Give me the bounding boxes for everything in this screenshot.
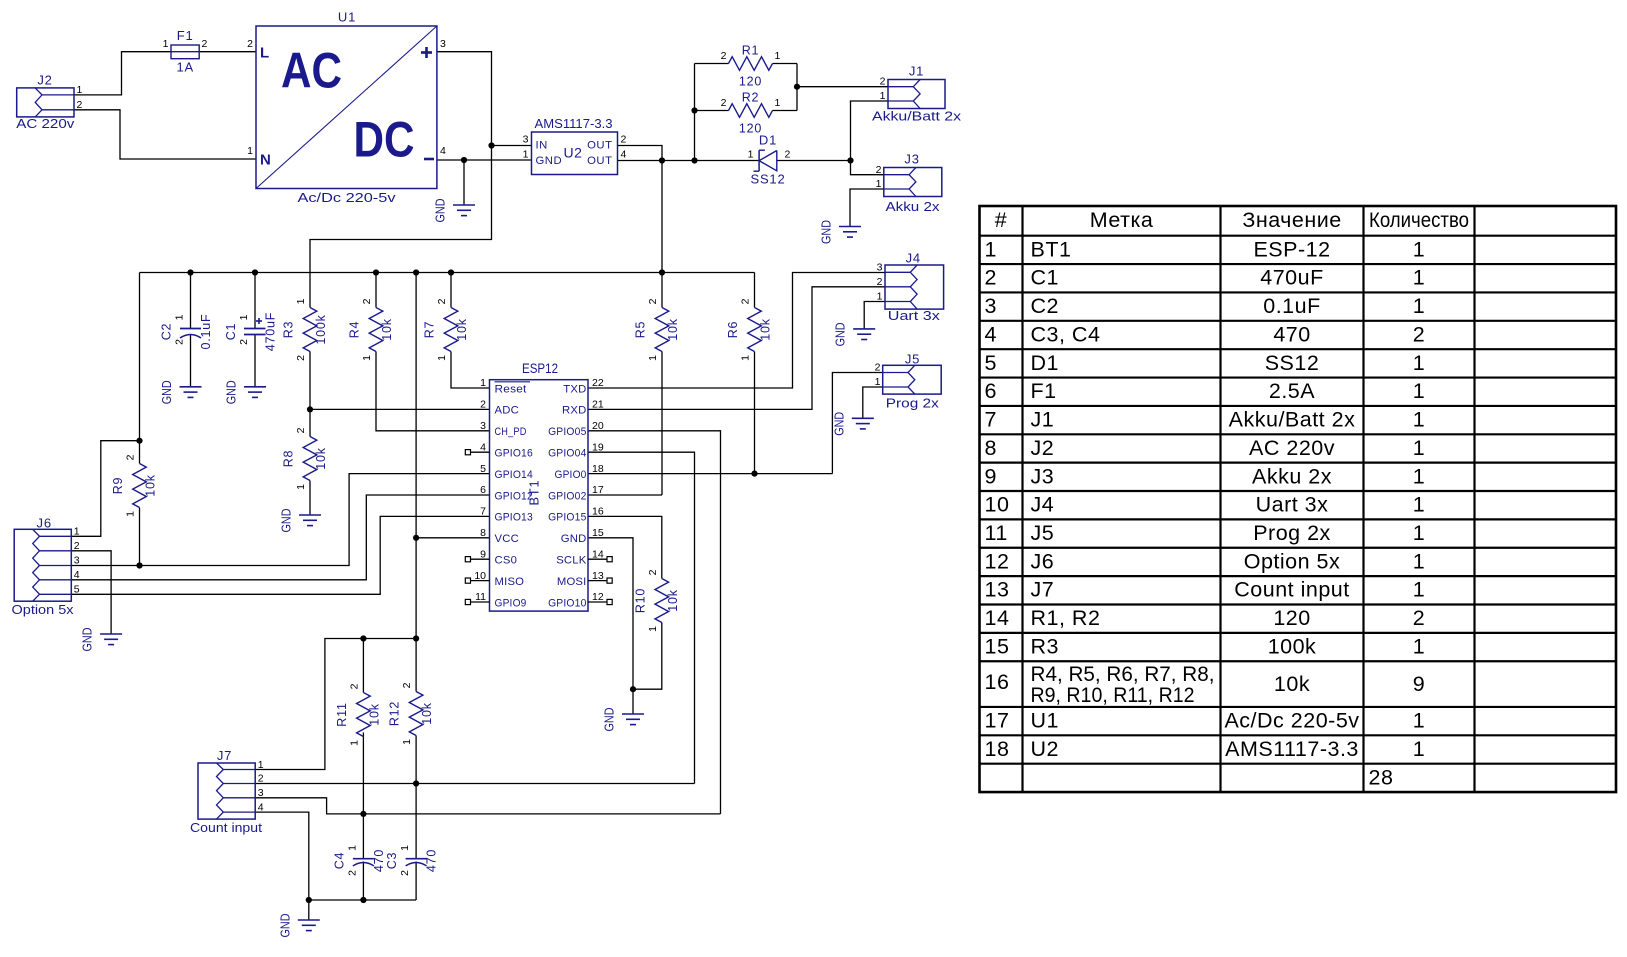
- svg-text:U2: U2: [1031, 737, 1059, 761]
- svg-text:1: 1: [880, 90, 886, 102]
- svg-text:F1: F1: [1031, 379, 1057, 403]
- wire D1 to batt node: [777, 160, 851, 162]
- svg-text:C2: C2: [160, 323, 174, 341]
- wire J5.1 to ground: [863, 387, 883, 418]
- svg-text:J2: J2: [1031, 436, 1055, 460]
- svg-text:2: 2: [1413, 606, 1425, 630]
- svg-text:1: 1: [125, 511, 137, 517]
- svg-text:IN: IN: [536, 140, 548, 152]
- resistor R6: [726, 298, 773, 361]
- wire ESP GPIO04 down: [588, 452, 695, 783]
- svg-text:MOSI: MOSI: [557, 576, 587, 588]
- svg-text:1: 1: [1413, 493, 1425, 517]
- wire 3.3V bus: [140, 272, 755, 274]
- stub pin 12: [588, 599, 612, 604]
- svg-text:1: 1: [1413, 634, 1425, 658]
- diode D1 SS12: [748, 133, 791, 187]
- wire to J1 pin2: [797, 86, 888, 88]
- svg-text:Uart 3x: Uart 3x: [1256, 493, 1329, 517]
- connector J1: [872, 64, 962, 124]
- capacitor C4: [332, 845, 386, 876]
- node VCC ESP pin8: [413, 535, 419, 541]
- node 3.3V rail tap: [691, 157, 697, 163]
- wire ground stub bottom: [308, 900, 310, 920]
- BOM row 1: [985, 237, 1426, 261]
- svg-text:RXD: RXD: [562, 405, 586, 417]
- stub pin 14: [588, 557, 612, 562]
- svg-text:8: 8: [480, 527, 486, 539]
- node bus R4: [373, 269, 379, 275]
- svg-text:12: 12: [985, 549, 1010, 573]
- svg-text:1: 1: [436, 355, 448, 361]
- node GND junction at U1: [461, 157, 467, 163]
- wire R5 bottom lead: [661, 352, 663, 496]
- svg-text:AMS1117-3.3: AMS1117-3.3: [1225, 737, 1359, 761]
- svg-text:GPIO10: GPIO10: [548, 597, 586, 609]
- svg-text:1: 1: [258, 759, 264, 771]
- svg-text:C2: C2: [1031, 294, 1059, 318]
- node R11/R12 rail VCC: [413, 635, 419, 641]
- svg-text:4: 4: [74, 569, 80, 581]
- wire C4 bottom lead: [362, 862, 364, 901]
- wire R11 bottom lead: [362, 733, 364, 859]
- wire batt node to J3 pin2: [851, 161, 884, 175]
- node R6 GPIO0 junction: [751, 471, 757, 477]
- wire J2.2 to U1 pin N: [74, 110, 256, 159]
- BOM row 16: [985, 662, 1426, 707]
- svg-text:3: 3: [74, 555, 80, 567]
- svg-text:2: 2: [721, 97, 727, 109]
- node C4 bottom junction: [360, 897, 366, 903]
- svg-text:6: 6: [985, 379, 997, 403]
- svg-text:1: 1: [77, 84, 83, 96]
- svg-text:2: 2: [1413, 322, 1425, 346]
- wire J7.2 to GPIO04 net: [255, 783, 694, 785]
- ground below J5: [831, 412, 874, 436]
- stub pin 9: [465, 557, 489, 562]
- svg-text:1: 1: [875, 376, 881, 388]
- resistor R5: [634, 298, 681, 361]
- wire C3 bottom lead: [415, 862, 417, 901]
- svg-text:ADC: ADC: [495, 405, 519, 417]
- node R10 GND junction: [630, 686, 636, 692]
- svg-text:Значение: Значение: [1242, 208, 1341, 232]
- svg-text:Prog 2x: Prog 2x: [1253, 521, 1331, 545]
- ESP12 module BT1: [474, 361, 604, 611]
- svg-text:J2: J2: [37, 73, 52, 88]
- resistor R1: [721, 44, 781, 89]
- svg-text:1: 1: [1413, 379, 1425, 403]
- wire R4 top lead: [375, 273, 377, 308]
- node OUT tie junction: [659, 157, 665, 163]
- svg-text:R6: R6: [726, 321, 740, 339]
- svg-text:GND: GND: [80, 628, 95, 652]
- svg-text:2: 2: [721, 50, 727, 62]
- svg-text:GPIO02: GPIO02: [548, 490, 586, 502]
- regulator U2 AMS1117-3.3: [523, 116, 627, 175]
- svg-text:2: 2: [238, 339, 250, 345]
- svg-text:1: 1: [1413, 709, 1425, 733]
- svg-text:Количество: Количество: [1369, 208, 1469, 232]
- svg-text:2: 2: [985, 266, 997, 290]
- svg-text:2: 2: [877, 276, 883, 288]
- svg-text:1A: 1A: [176, 60, 194, 75]
- svg-text:2: 2: [480, 399, 486, 411]
- ground below C2: [159, 380, 202, 404]
- wire R9 bottom lead: [139, 508, 141, 566]
- svg-text:J4: J4: [906, 251, 921, 266]
- svg-text:1: 1: [163, 38, 169, 50]
- svg-text:22: 22: [592, 377, 604, 389]
- wire J7.3 to GPIO05 net: [255, 798, 720, 814]
- svg-text:C3: C3: [385, 852, 399, 870]
- svg-text:GPIO05: GPIO05: [548, 426, 586, 438]
- svg-text:R2: R2: [742, 91, 760, 105]
- svg-text:ESP12: ESP12: [522, 361, 558, 376]
- svg-text:2: 2: [361, 298, 373, 304]
- svg-text:J6: J6: [1031, 549, 1055, 573]
- wire R6 bottom lead: [754, 352, 756, 474]
- wire C2 top lead: [190, 273, 192, 329]
- svg-text:10k: 10k: [455, 318, 469, 341]
- svg-text:GPIO0: GPIO0: [555, 469, 587, 481]
- svg-text:J1: J1: [1031, 408, 1055, 432]
- wire R1 right lead: [773, 63, 798, 65]
- svg-text:2: 2: [880, 76, 886, 88]
- svg-text:1: 1: [877, 291, 883, 303]
- svg-text:OUT: OUT: [587, 155, 612, 167]
- svg-text:17: 17: [592, 484, 604, 496]
- svg-text:1: 1: [1413, 737, 1425, 761]
- svg-text:GND: GND: [831, 412, 846, 436]
- stub pin 10: [465, 578, 489, 583]
- svg-text:1: 1: [1413, 237, 1425, 261]
- svg-text:J3: J3: [904, 152, 919, 167]
- connector J4: [877, 251, 944, 324]
- svg-text:1: 1: [238, 314, 250, 320]
- svg-text:D1: D1: [759, 133, 777, 148]
- svg-text:VCC: VCC: [495, 533, 519, 545]
- resistor R9: [111, 454, 158, 517]
- wire J6.5 to ESP GPIO13: [71, 516, 489, 594]
- svg-text:F1: F1: [177, 28, 194, 43]
- svg-text:2: 2: [785, 149, 791, 161]
- wire J3 pin1 to ground: [850, 189, 884, 227]
- svg-text:N: N: [260, 152, 271, 169]
- svg-text:J3: J3: [1031, 464, 1055, 488]
- svg-text:2.5A: 2.5A: [1269, 379, 1315, 403]
- wire J7.4 down: [255, 812, 309, 900]
- fuse F1: [163, 28, 208, 75]
- svg-text:Akku 2x: Akku 2x: [886, 199, 941, 214]
- svg-text:100k: 100k: [1268, 634, 1317, 658]
- svg-text:2: 2: [401, 682, 413, 688]
- svg-text:R9: R9: [111, 477, 125, 495]
- svg-text:U1: U1: [338, 10, 356, 25]
- svg-text:2: 2: [647, 569, 659, 575]
- node R11 rail junction: [360, 635, 366, 641]
- svg-text:TXD: TXD: [563, 383, 586, 395]
- resistor R12: [388, 682, 435, 745]
- svg-text:2: 2: [399, 870, 411, 876]
- wire J4.1 to ground: [864, 302, 885, 329]
- wire R3 bottom lead: [309, 352, 311, 410]
- svg-text:1: 1: [247, 145, 253, 157]
- wire ESP GND pin15 down: [588, 538, 633, 714]
- svg-text:GPIO13: GPIO13: [495, 512, 533, 524]
- svg-text:7: 7: [985, 408, 997, 432]
- svg-text:J6: J6: [37, 516, 52, 531]
- wire R2 left lead: [695, 110, 729, 112]
- node R12 J7.2 junction: [413, 780, 419, 786]
- wire J6.2 to ground: [71, 551, 111, 634]
- wire R12 bottom lead: [415, 736, 417, 859]
- wire J6.4 to ESP GPIO12: [71, 495, 489, 580]
- svg-text:2: 2: [875, 362, 881, 374]
- svg-text:1: 1: [1413, 266, 1425, 290]
- svg-text:10: 10: [985, 493, 1010, 517]
- capacitor C3: [385, 845, 439, 876]
- svg-text:R3: R3: [282, 321, 296, 339]
- svg-text:J7: J7: [217, 748, 232, 763]
- svg-text:16: 16: [985, 670, 1010, 694]
- ground below U1: [433, 199, 476, 223]
- svg-text:1: 1: [740, 355, 752, 361]
- svg-text:13: 13: [985, 578, 1010, 602]
- svg-text:2: 2: [247, 38, 253, 50]
- svg-text:#: #: [995, 208, 1007, 232]
- capacitor C2: [160, 314, 214, 350]
- BOM row 11: [985, 521, 1426, 545]
- wire to ground stub U1: [463, 160, 465, 205]
- svg-text:1: 1: [1413, 294, 1425, 318]
- svg-text:2: 2: [125, 454, 137, 460]
- BOM total row: [1369, 765, 1394, 789]
- svg-text:100k: 100k: [314, 314, 328, 344]
- svg-text:AC: AC: [281, 42, 342, 99]
- wire ADC to ESP pin2: [310, 408, 490, 410]
- svg-text:Reset: Reset: [495, 383, 528, 395]
- ground below R8: [279, 509, 322, 533]
- svg-text:4: 4: [621, 149, 627, 161]
- svg-text:Akku/Batt 2x: Akku/Batt 2x: [1229, 408, 1356, 432]
- wire R6 top lead: [754, 273, 756, 308]
- svg-text:GND: GND: [819, 220, 834, 244]
- svg-text:2: 2: [621, 134, 627, 146]
- svg-text:R1: R1: [742, 44, 760, 58]
- svg-text:SS12: SS12: [750, 172, 785, 187]
- svg-text:11: 11: [985, 521, 1008, 545]
- svg-text:GND: GND: [602, 708, 617, 732]
- svg-text:1: 1: [647, 626, 659, 632]
- svg-text:10k: 10k: [380, 318, 394, 341]
- ground below J3: [819, 220, 862, 244]
- ground bottom rail: [277, 914, 320, 938]
- svg-text:ESP-12: ESP-12: [1253, 237, 1330, 261]
- svg-text:R7: R7: [423, 321, 437, 339]
- svg-text:Ac/Dc 220-5v: Ac/Dc 220-5v: [1224, 709, 1359, 733]
- svg-text:5: 5: [480, 463, 486, 475]
- svg-text:3: 3: [877, 262, 883, 274]
- connector J2: [16, 73, 82, 132]
- wire R1/R2 left rail: [694, 64, 696, 161]
- svg-text:GND: GND: [536, 155, 563, 167]
- svg-text:1: 1: [1413, 578, 1425, 602]
- svg-text:GND: GND: [833, 322, 848, 346]
- svg-text:C1: C1: [224, 323, 238, 341]
- wire J2.1 to F1: [74, 52, 171, 95]
- svg-text:3: 3: [985, 294, 997, 318]
- svg-text:4: 4: [258, 801, 264, 813]
- svg-text:GND: GND: [561, 533, 587, 545]
- svg-text:1: 1: [1413, 521, 1425, 545]
- node R2 left junction: [691, 107, 697, 113]
- svg-text:SS12: SS12: [1265, 351, 1320, 375]
- wire J7.1 up to rail: [255, 639, 416, 770]
- svg-text:1: 1: [775, 50, 781, 62]
- svg-text:Uart 3x: Uart 3x: [888, 308, 941, 323]
- wire GPIO0 to J5.2: [832, 373, 882, 474]
- svg-text:10k: 10k: [420, 702, 434, 725]
- svg-text:15: 15: [985, 634, 1010, 658]
- svg-text:R12: R12: [388, 701, 402, 726]
- svg-text:1: 1: [985, 237, 997, 261]
- wire R4 to ESP CH_PD: [376, 352, 490, 431]
- svg-text:Ac/Dc 220-5v: Ac/Dc 220-5v: [298, 190, 397, 205]
- resistor R4: [348, 298, 395, 361]
- wire 5V branch to U2 IN: [492, 145, 532, 147]
- svg-text:MISO: MISO: [495, 576, 525, 588]
- wire R7 top lead: [450, 273, 452, 308]
- BOM row 8: [985, 436, 1426, 460]
- node battery junction: [847, 157, 853, 163]
- svg-text:AMS1117-3.3: AMS1117-3.3: [535, 116, 613, 131]
- svg-text:U2: U2: [564, 145, 583, 161]
- svg-text:19: 19: [592, 441, 604, 453]
- stub pin 4: [465, 450, 489, 455]
- svg-text:1: 1: [523, 149, 529, 161]
- wire J6.3 to ESP GPIO14: [71, 474, 489, 566]
- svg-text:1: 1: [401, 739, 413, 745]
- svg-text:16: 16: [592, 506, 604, 518]
- wire R8 top lead: [309, 409, 311, 436]
- svg-text:GPIO16: GPIO16: [495, 448, 533, 460]
- svg-text:10k: 10k: [666, 589, 680, 612]
- svg-text:4: 4: [985, 322, 997, 346]
- node bus C1: [252, 269, 258, 275]
- svg-text:1: 1: [1413, 408, 1425, 432]
- BOM row 2: [985, 266, 1426, 290]
- wire J6.1 to R9 top: [71, 441, 139, 537]
- svg-text:9: 9: [1413, 672, 1425, 696]
- wire 3.3V vertical to bus: [661, 161, 663, 308]
- svg-text:3: 3: [440, 38, 446, 50]
- svg-text:R1, R2: R1, R2: [1031, 606, 1101, 630]
- svg-text:18: 18: [592, 463, 604, 475]
- svg-text:0.1uF: 0.1uF: [1263, 294, 1320, 318]
- node J1.2 tap: [794, 84, 800, 90]
- svg-text:2: 2: [174, 339, 186, 345]
- BOM row 10: [985, 493, 1426, 517]
- svg-text:17: 17: [985, 709, 1010, 733]
- svg-text:470uF: 470uF: [1260, 266, 1323, 290]
- BOM row 14: [985, 606, 1426, 630]
- svg-text:GPIO9: GPIO9: [495, 597, 527, 609]
- svg-text:SCLK: SCLK: [556, 555, 587, 567]
- svg-text:2: 2: [346, 870, 358, 876]
- svg-text:3: 3: [258, 787, 264, 799]
- wire ESP TXD to J4.3: [588, 273, 885, 389]
- svg-text:Count input: Count input: [1234, 578, 1349, 602]
- svg-text:GPIO12: GPIO12: [495, 490, 533, 502]
- svg-text:6: 6: [480, 484, 486, 496]
- svg-text:GND: GND: [279, 509, 294, 533]
- BOM row 4: [985, 322, 1426, 346]
- wire U2 OUT pin2 jog: [618, 146, 663, 161]
- svg-text:J1: J1: [909, 64, 924, 79]
- svg-text:2: 2: [202, 38, 208, 50]
- svg-text:AC 220v: AC 220v: [1249, 436, 1335, 460]
- node 5V junction: [488, 142, 494, 148]
- svg-text:GND: GND: [433, 199, 448, 223]
- svg-text:1: 1: [775, 97, 781, 109]
- svg-text:R8: R8: [282, 450, 296, 468]
- svg-text:C1: C1: [1031, 266, 1059, 290]
- svg-text:2: 2: [740, 298, 752, 304]
- wire ESP RXD to J4.2: [588, 287, 885, 410]
- svg-text:1: 1: [295, 484, 307, 490]
- ground below R10: [602, 708, 645, 732]
- svg-text:120: 120: [1273, 606, 1310, 630]
- svg-text:10k: 10k: [666, 318, 680, 341]
- BOM row 15: [985, 634, 1426, 658]
- ground below C1: [224, 380, 267, 404]
- BOM table grid: [980, 206, 1617, 792]
- svg-text:AC 220v: AC 220v: [16, 116, 75, 131]
- svg-text:BT1: BT1: [1031, 237, 1072, 261]
- svg-text:18: 18: [985, 737, 1010, 761]
- node bus R5: [659, 269, 665, 275]
- svg-text:0.1uF: 0.1uF: [199, 314, 213, 350]
- svg-text:1: 1: [1413, 549, 1425, 573]
- node R9 top junction: [136, 438, 142, 444]
- wire C2 bottom lead: [190, 334, 192, 387]
- svg-text:GND: GND: [277, 914, 292, 938]
- svg-text:J4: J4: [1031, 493, 1055, 517]
- svg-text:470: 470: [372, 849, 386, 872]
- ground below J4: [833, 322, 876, 346]
- resistor R10: [633, 569, 680, 632]
- svg-text:1: 1: [346, 845, 358, 851]
- resistor R3: [282, 298, 329, 361]
- svg-text:1: 1: [1413, 464, 1425, 488]
- svg-text:1: 1: [399, 845, 411, 851]
- svg-text:Count input: Count input: [190, 820, 262, 835]
- BOM row 18: [985, 737, 1426, 761]
- stub pin 11: [465, 599, 489, 604]
- svg-text:1: 1: [348, 740, 360, 746]
- wire R1/R2 right rail: [796, 64, 798, 111]
- BOM row 5: [985, 351, 1426, 375]
- svg-text:2: 2: [295, 427, 307, 433]
- svg-text:Prog 2x: Prog 2x: [886, 395, 940, 410]
- BOM row 7: [985, 408, 1426, 432]
- svg-text:21: 21: [592, 399, 604, 411]
- BOM row 6: [985, 379, 1426, 403]
- svg-text:10k: 10k: [1274, 672, 1310, 696]
- svg-text:120: 120: [739, 75, 762, 89]
- BOM row 3: [985, 294, 1426, 318]
